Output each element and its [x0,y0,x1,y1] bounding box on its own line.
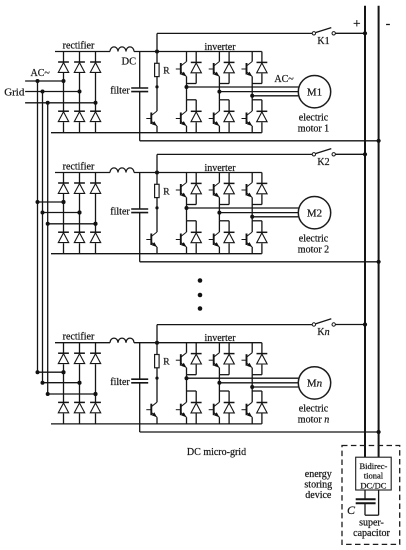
svg-text:Grid: Grid [4,86,25,98]
svg-text:rectifier: rectifier [63,162,95,173]
svg-text:+: + [353,16,361,31]
svg-text:electric: electric [299,113,329,124]
svg-text:motor n: motor n [298,415,329,426]
svg-text:rectifier: rectifier [63,332,95,343]
svg-text:DC/DC: DC/DC [360,480,386,490]
svg-text:filter: filter [110,377,130,388]
svg-text:DC: DC [122,57,137,68]
svg-text:rectifier: rectifier [63,41,95,52]
svg-text:R: R [163,358,170,368]
svg-text:K1: K1 [317,36,329,47]
svg-text:electric: electric [299,234,329,245]
svg-text:Kn: Kn [317,327,329,338]
svg-text:M2: M2 [307,208,322,220]
svg-text:C: C [347,503,356,517]
svg-text:tional: tional [364,471,384,481]
svg-text:filter: filter [110,86,130,97]
svg-text:motor 2: motor 2 [298,244,329,255]
svg-text:-: - [386,17,391,32]
svg-text:filter: filter [110,207,130,218]
svg-text:inverter: inverter [204,163,236,174]
svg-text:capacitor: capacitor [353,528,390,539]
svg-text:AC~: AC~ [31,68,51,79]
svg-text:storing: storing [304,480,332,491]
svg-text:inverter: inverter [204,42,236,53]
svg-text:M1: M1 [307,87,322,99]
svg-text:electric: electric [299,404,329,415]
svg-text:AC~: AC~ [274,74,294,85]
svg-text:K2: K2 [317,157,329,168]
svg-text:DC micro-grid: DC micro-grid [187,447,246,458]
svg-text:R: R [163,188,170,198]
svg-text:Mn: Mn [307,378,323,390]
svg-text:Bidirec-: Bidirec- [359,461,387,471]
svg-text:R: R [163,67,170,77]
svg-text:device: device [305,490,332,501]
svg-text:motor 1: motor 1 [298,123,329,134]
svg-text:inverter: inverter [204,333,236,344]
svg-text:energy: energy [305,469,332,480]
